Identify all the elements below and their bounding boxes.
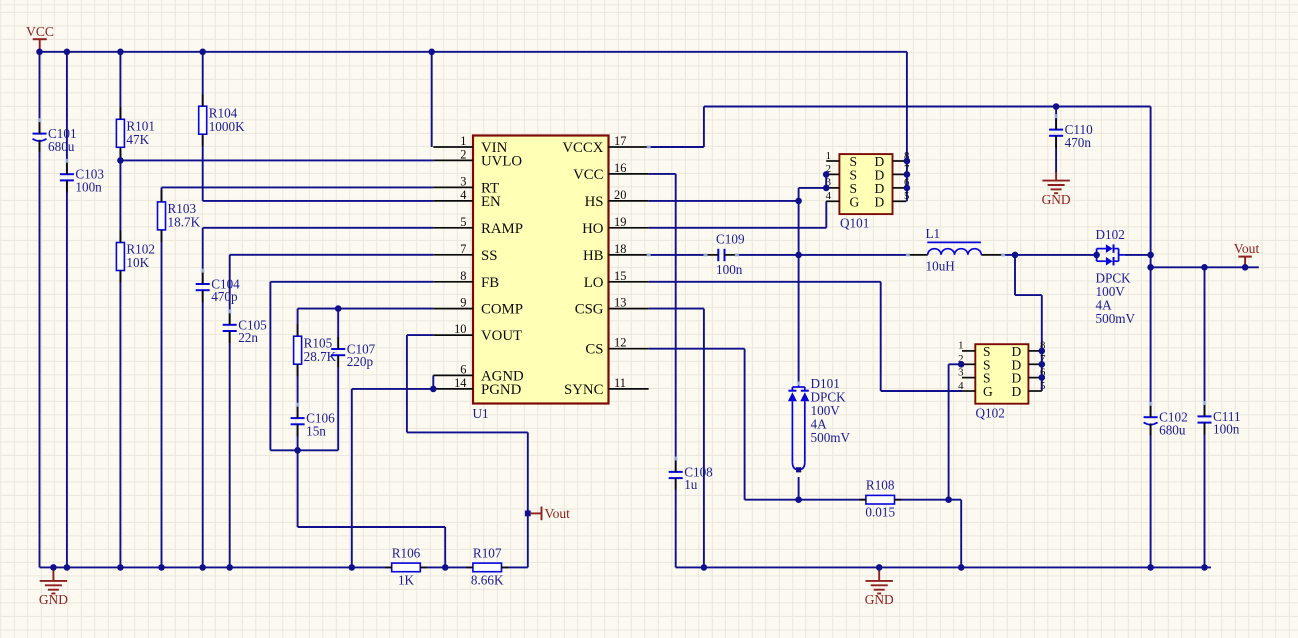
svg-text:7: 7 bbox=[460, 242, 466, 256]
svg-text:LO: LO bbox=[584, 275, 604, 291]
svg-text:10K: 10K bbox=[126, 255, 149, 270]
svg-text:680u: 680u bbox=[1159, 422, 1186, 437]
svg-text:PGND: PGND bbox=[481, 382, 522, 398]
svg-text:220p: 220p bbox=[347, 354, 374, 369]
svg-text:Vout: Vout bbox=[545, 506, 571, 521]
svg-text:100n: 100n bbox=[1213, 422, 1240, 437]
svg-text:1: 1 bbox=[460, 134, 466, 148]
svg-text:10uH: 10uH bbox=[926, 259, 956, 274]
svg-text:18: 18 bbox=[614, 242, 626, 256]
svg-text:U1: U1 bbox=[473, 406, 489, 421]
svg-text:15n: 15n bbox=[306, 423, 326, 438]
svg-text:R107: R107 bbox=[473, 545, 502, 560]
svg-text:100n: 100n bbox=[716, 262, 743, 277]
svg-text:1: 1 bbox=[958, 340, 963, 352]
svg-text:9: 9 bbox=[460, 296, 466, 310]
svg-text:VCC: VCC bbox=[26, 24, 54, 39]
svg-text:FB: FB bbox=[481, 275, 499, 291]
svg-text:47K: 47K bbox=[126, 132, 149, 147]
svg-text:4: 4 bbox=[826, 190, 832, 202]
svg-text:UVLO: UVLO bbox=[481, 153, 522, 169]
svg-text:Q102: Q102 bbox=[976, 405, 1005, 420]
svg-text:3: 3 bbox=[958, 366, 963, 378]
svg-text:VCC: VCC bbox=[573, 167, 604, 183]
svg-text:VOUT: VOUT bbox=[481, 328, 522, 344]
svg-text:100n: 100n bbox=[75, 179, 102, 194]
svg-text:Vout: Vout bbox=[1234, 241, 1260, 256]
svg-text:6: 6 bbox=[460, 362, 466, 376]
svg-text:GND: GND bbox=[865, 592, 894, 607]
svg-text:EN: EN bbox=[481, 194, 501, 210]
svg-text:GND: GND bbox=[39, 592, 68, 607]
svg-text:15: 15 bbox=[614, 269, 626, 283]
svg-text:HO: HO bbox=[582, 221, 604, 237]
svg-text:VCCX: VCCX bbox=[562, 140, 603, 156]
svg-text:5: 5 bbox=[1040, 380, 1045, 392]
svg-text:2: 2 bbox=[460, 147, 466, 161]
svg-text:500mV: 500mV bbox=[1096, 311, 1136, 326]
svg-text:R106: R106 bbox=[392, 545, 421, 560]
svg-text:28.7K: 28.7K bbox=[304, 349, 337, 364]
svg-text:0.015: 0.015 bbox=[865, 505, 895, 520]
svg-text:18.7K: 18.7K bbox=[168, 215, 201, 230]
svg-text:5: 5 bbox=[460, 215, 466, 229]
svg-text:L1: L1 bbox=[926, 226, 941, 241]
svg-text:22n: 22n bbox=[238, 330, 258, 345]
svg-text:12: 12 bbox=[614, 336, 626, 350]
svg-text:SS: SS bbox=[481, 248, 497, 264]
svg-text:8.66K: 8.66K bbox=[471, 572, 504, 587]
svg-text:1000K: 1000K bbox=[209, 119, 245, 134]
svg-text:G: G bbox=[850, 194, 860, 209]
svg-text:16: 16 bbox=[614, 161, 626, 175]
svg-text:500mV: 500mV bbox=[811, 430, 851, 445]
svg-text:1K: 1K bbox=[398, 572, 415, 587]
svg-text:HB: HB bbox=[583, 248, 604, 264]
svg-text:1: 1 bbox=[826, 150, 831, 162]
svg-text:470n: 470n bbox=[1065, 135, 1092, 150]
svg-text:R108: R108 bbox=[866, 478, 895, 493]
svg-text:14: 14 bbox=[454, 376, 466, 390]
svg-text:680u: 680u bbox=[48, 139, 75, 154]
svg-text:4: 4 bbox=[958, 380, 964, 392]
svg-text:D: D bbox=[1012, 384, 1022, 399]
svg-text:4: 4 bbox=[460, 188, 466, 202]
svg-text:HS: HS bbox=[585, 194, 604, 210]
svg-text:CSG: CSG bbox=[575, 302, 604, 318]
svg-text:470p: 470p bbox=[211, 289, 238, 304]
svg-text:CS: CS bbox=[585, 342, 603, 358]
svg-text:8: 8 bbox=[460, 269, 466, 283]
svg-text:C109: C109 bbox=[716, 232, 745, 247]
svg-text:20: 20 bbox=[614, 188, 626, 202]
svg-text:Q101: Q101 bbox=[840, 215, 869, 230]
svg-text:11: 11 bbox=[614, 376, 626, 390]
svg-text:1u: 1u bbox=[684, 477, 698, 492]
svg-text:GND: GND bbox=[1042, 192, 1071, 207]
svg-text:17: 17 bbox=[614, 134, 626, 148]
svg-text:SYNC: SYNC bbox=[564, 382, 604, 398]
svg-text:COMP: COMP bbox=[481, 302, 523, 318]
svg-text:G: G bbox=[983, 384, 993, 399]
svg-text:19: 19 bbox=[614, 215, 626, 229]
svg-text:D: D bbox=[875, 194, 885, 209]
svg-text:3: 3 bbox=[460, 174, 466, 188]
svg-text:10: 10 bbox=[454, 322, 466, 336]
svg-text:5: 5 bbox=[904, 190, 909, 202]
svg-text:13: 13 bbox=[614, 296, 626, 310]
svg-text:D102: D102 bbox=[1096, 227, 1125, 242]
svg-text:RAMP: RAMP bbox=[481, 221, 523, 237]
